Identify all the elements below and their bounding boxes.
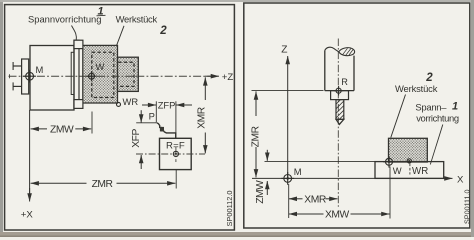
- WR point right: [407, 159, 411, 163]
- svg-text:M: M: [36, 64, 44, 75]
- chuck left bump: [71, 52, 74, 94]
- svg-text:+X: +X: [21, 210, 34, 221]
- svg-text:Z: Z: [281, 45, 287, 56]
- svg-text:R=F: R=F: [166, 141, 185, 152]
- svg-text:XMR: XMR: [304, 194, 326, 205]
- svg-text:P: P: [149, 110, 155, 121]
- W point right: [383, 156, 395, 168]
- svg-text:ZFP: ZFP: [158, 99, 176, 110]
- R=F point: [136, 153, 205, 155]
- svg-text:2: 2: [425, 72, 433, 84]
- svg-text:M: M: [294, 166, 302, 177]
- leader spannvorrichtung right: [430, 125, 443, 165]
- svg-text:+Z: +Z: [222, 72, 234, 83]
- svg-text:ZMR: ZMR: [92, 179, 113, 190]
- tool insert: [160, 127, 164, 131]
- svg-text:W: W: [96, 61, 105, 72]
- svg-text:ZMR: ZMR: [251, 126, 262, 147]
- svg-text:XFP: XFP: [131, 129, 142, 148]
- tool holder: [160, 138, 192, 169]
- spindle stub: [13, 65, 22, 67]
- svg-text:XMW: XMW: [325, 210, 350, 221]
- panel frame right: [244, 3, 470, 228]
- svg-text:XMR: XMR: [197, 107, 208, 129]
- X axis: [252, 177, 453, 179]
- ZMR right extension: [175, 170, 177, 189]
- svg-text:Werkstück: Werkstück: [116, 14, 158, 25]
- M extension below: [288, 184, 290, 218]
- chuck top jaw: [74, 40, 83, 48]
- centerline +Z axis: [9, 75, 213, 77]
- dim ZFP: [142, 104, 156, 106]
- dim ZMR right panel: [255, 91, 257, 116]
- drill shank: [336, 100, 344, 120]
- Z axis: [287, 56, 289, 178]
- svg-text:SP00111.0: SP00111.0: [462, 189, 471, 224]
- left axis line: [29, 110, 31, 197]
- workpiece small block: [118, 57, 139, 91]
- svg-text:WR: WR: [412, 166, 428, 177]
- workpiece big block: [83, 45, 118, 103]
- svg-text:vorrichtung: vorrichtung: [416, 113, 459, 124]
- leader werkstueck right: [391, 95, 406, 138]
- spindle flange: [22, 59, 29, 94]
- finished contour dashed B: [118, 62, 134, 86]
- svg-text:ZMW: ZMW: [50, 125, 74, 136]
- leader spannvorrichtung: [72, 26, 77, 41]
- svg-text:Werkstück: Werkstück: [395, 83, 438, 94]
- ZFP right extension: [175, 101, 177, 138]
- M point right: [281, 172, 294, 185]
- dim XMR right panel: [289, 198, 303, 200]
- svg-text:SP00112.0: SP00112.0: [225, 190, 234, 226]
- drill centerline: [337, 39, 339, 208]
- dim XFP: [140, 110, 142, 122]
- dim XMR left panel: [204, 77, 206, 100]
- +X arrow: [29, 188, 31, 202]
- finished contour dashed A: [92, 52, 114, 97]
- centerline over workpiece: [83, 75, 139, 77]
- table: [375, 162, 444, 179]
- svg-text:Spannvorrichtung: Spannvorrichtung: [28, 14, 102, 25]
- drill body break hatch: [343, 48, 354, 55]
- headstock: [30, 46, 74, 111]
- svg-text:R: R: [341, 77, 348, 87]
- R point right: [334, 86, 344, 96]
- drill body: [325, 50, 354, 90]
- R level extension: [252, 89, 324, 91]
- dim ZMW: [31, 128, 47, 130]
- WR point: [117, 102, 121, 106]
- leader werkstueck: [113, 26, 124, 56]
- workpiece block right: [389, 138, 428, 162]
- P extension lines: [136, 122, 156, 124]
- chuck backplate: [74, 40, 79, 108]
- svg-text:1: 1: [452, 101, 458, 113]
- W level extension: [265, 161, 376, 163]
- svg-text:ZMW: ZMW: [255, 180, 266, 204]
- drill shank hatch: [336, 100, 344, 124]
- svg-text:W: W: [393, 165, 402, 176]
- dim XMW: [289, 213, 324, 215]
- chuck bottom jaw: [74, 100, 83, 109]
- tool clamp outline: [157, 123, 176, 139]
- svg-text:Spann–: Spann–: [415, 102, 447, 113]
- W point: [86, 71, 96, 81]
- drill tip: [336, 119, 344, 124]
- svg-text:2: 2: [159, 25, 167, 37]
- dim ZMR: [31, 182, 87, 184]
- M point: [23, 70, 36, 83]
- svg-text:WR: WR: [123, 96, 139, 107]
- svg-text:X: X: [457, 174, 464, 185]
- W extension below: [389, 167, 391, 219]
- collet nut: [331, 91, 349, 100]
- dim ZMW right panel: [266, 150, 268, 161]
- ZMW extension W side: [91, 112, 93, 134]
- panel frame left: [5, 5, 235, 230]
